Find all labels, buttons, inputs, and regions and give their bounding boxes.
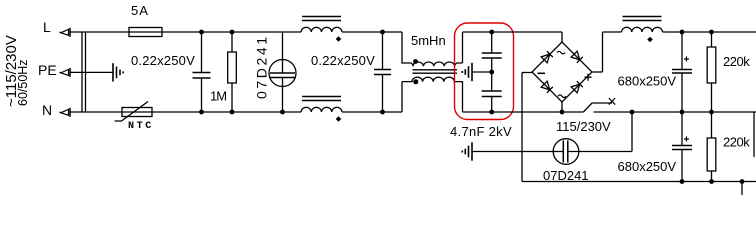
varistor RV1 leads xyxy=(282,32,284,112)
junction dot R2 mid xyxy=(709,110,714,115)
choke L2 bottom phase dot xyxy=(413,79,418,84)
choke L3 winding xyxy=(622,27,663,32)
wire choke L2 top right riser xyxy=(462,32,464,63)
choke L3 core xyxy=(623,17,662,21)
capacitor C5 polarity plus xyxy=(684,57,689,62)
wire varistor RV2 line left xyxy=(472,151,564,153)
thermistor NTC body xyxy=(122,108,152,117)
node mains source label ~115/230V 60/50Hz xyxy=(3,35,30,107)
choke L1 bottom winding xyxy=(301,107,342,112)
svg-text:60/50Hz: 60/50Hz xyxy=(16,59,30,106)
bridge rectifier diamond xyxy=(532,42,592,102)
wire bottom negative rail xyxy=(522,181,756,183)
junction dot C1 bottom xyxy=(199,110,204,115)
wire bridge AC bottom riser xyxy=(561,102,563,112)
svg-text:07D241: 07D241 xyxy=(543,168,589,183)
svg-text:680x250V: 680x250V xyxy=(618,74,677,89)
junction dot RV1 bottom xyxy=(280,110,285,115)
thermistor NTC slash xyxy=(115,102,149,122)
svg-text:0.22x250V: 0.22x250V xyxy=(311,53,375,68)
resistor R1 body xyxy=(228,52,237,83)
choke L1 top phase dot xyxy=(336,36,342,42)
resistor R3 body xyxy=(707,138,716,171)
junction dot R2 top xyxy=(709,30,714,35)
capacitor C2 leads xyxy=(382,32,384,112)
node PE terminal connector arrow xyxy=(60,68,71,77)
switch SW1 pole lever xyxy=(584,103,613,112)
wire choke L2 bottom right riser xyxy=(462,81,464,112)
varistor RV2 circle xyxy=(553,139,579,165)
capacitor C3 lead top xyxy=(491,32,493,53)
svg-text:680x250V: 680x250V xyxy=(618,159,677,174)
capacitor C1 leads xyxy=(201,32,203,112)
junction dot R1 top xyxy=(230,30,235,35)
fuse F1 body xyxy=(129,28,162,37)
choke L1 bottom core xyxy=(302,97,341,101)
capacitor C2 plates xyxy=(374,70,391,75)
choke L2 bottom jog wire xyxy=(401,82,403,112)
junction dot C4 bottom xyxy=(489,110,494,115)
wire right edge stub xyxy=(753,112,755,157)
svg-text:N: N xyxy=(42,102,52,118)
wire top rail to edge xyxy=(663,31,756,33)
diode D4 bottom-right xyxy=(571,81,583,93)
wire bridge plus stub xyxy=(592,71,603,73)
choke L2 bottom winding xyxy=(402,77,463,81)
junction dot C5 mid xyxy=(680,110,685,115)
wire bridge plus riser xyxy=(602,32,604,72)
junction dot C1 top xyxy=(199,30,204,35)
wire output stub down xyxy=(741,182,743,196)
svg-text:0.22x250V: 0.22x250V xyxy=(131,53,195,68)
ground Y-cap earth symbol xyxy=(462,63,472,81)
resistor R2 body xyxy=(707,47,716,83)
capacitor C5 lead bottom xyxy=(681,73,683,112)
wire L top rail left section xyxy=(70,31,301,33)
junction dot R3 bottom xyxy=(709,179,714,184)
svg-text:220k: 220k xyxy=(723,54,750,69)
bridge AC mark top xyxy=(557,51,565,54)
svg-text:220k: 220k xyxy=(723,135,750,150)
varistor RV1 plates xyxy=(270,73,295,78)
wire N bottom rail left section xyxy=(70,111,301,113)
diode D1 top-left xyxy=(541,51,553,63)
junction dot switch right xyxy=(630,110,635,115)
wire bottom rail inside oval xyxy=(463,111,584,113)
svg-text:115/230V: 115/230V xyxy=(556,119,611,134)
bridge minus mark xyxy=(538,72,546,74)
choke L2 core xyxy=(413,70,458,73)
capacitor C4 plates xyxy=(482,91,502,97)
wire bottom rail between chokes xyxy=(342,111,402,113)
red highlight oval around Y-capacitors xyxy=(455,23,514,120)
varistor RV2 plates xyxy=(563,141,568,163)
wire mid rail right section xyxy=(594,111,756,113)
resistor R3 leads xyxy=(711,112,713,182)
resistor R2 leads xyxy=(711,32,713,112)
resistor R1 leads xyxy=(231,32,233,112)
wire selector drop xyxy=(631,112,633,152)
capacitor C6 plates xyxy=(672,146,692,150)
svg-text:PE: PE xyxy=(38,62,57,78)
capacitor C5 plates xyxy=(672,70,692,74)
svg-text:NTC: NTC xyxy=(128,121,154,132)
wire top rail inside oval xyxy=(463,31,563,33)
junction dot Y-cap mid xyxy=(489,70,494,75)
capacitor C6 polarity plus xyxy=(684,137,689,142)
ground PE earth symbol xyxy=(113,63,123,81)
svg-text:L: L xyxy=(43,19,51,35)
choke L2 top winding xyxy=(411,62,463,66)
node N terminal connector arrow xyxy=(60,108,71,117)
junction dot output stub xyxy=(740,179,745,184)
capacitor C3 to mid node xyxy=(491,58,493,91)
varistor RV1 circle xyxy=(269,60,296,87)
choke L1 bottom phase dot xyxy=(336,116,342,122)
wire connector double vertical lines xyxy=(82,32,86,112)
choke L1 top winding xyxy=(301,27,342,32)
junction dot C2 bottom xyxy=(380,110,385,115)
wire varistor RV2 line right xyxy=(568,151,632,153)
capacitor C5 lead top xyxy=(681,32,683,70)
wire PE to ground xyxy=(70,71,113,73)
bridge AC mark bottom xyxy=(558,95,566,98)
choke L1 top core xyxy=(302,17,341,21)
diode D2 top-right xyxy=(571,51,583,63)
junction dot C3 top xyxy=(489,30,494,35)
capacitor C6 lead top xyxy=(681,112,683,146)
switch SW1 open contact x xyxy=(609,98,615,105)
svg-text:4.7nF 2kV: 4.7nF 2kV xyxy=(450,124,512,139)
choke L2 top phase dot xyxy=(413,59,418,64)
wire bridge AC top riser xyxy=(561,32,563,42)
ground earth symbol below 4.7nF label xyxy=(462,142,472,160)
capacitor C3 plates xyxy=(482,53,502,58)
choke L3 phase dot xyxy=(647,37,653,43)
wire top rail right section xyxy=(603,31,622,33)
svg-text:5mHn: 5mHn xyxy=(411,33,446,48)
diode D3 bottom-left xyxy=(541,81,553,93)
choke L2 top jog wire xyxy=(402,32,411,63)
wire mid node to ground xyxy=(472,71,492,73)
capacitor C4 lead bottom xyxy=(491,97,493,113)
svg-text:1M: 1M xyxy=(210,89,226,104)
wire top rail between chokes xyxy=(342,31,402,33)
junction dot bridge bottom xyxy=(560,110,565,115)
svg-text:5A: 5A xyxy=(131,3,149,18)
svg-text:07D241: 07D241 xyxy=(254,34,270,99)
junction dot C5 top xyxy=(680,30,685,35)
junction dot C2 top xyxy=(380,30,385,35)
capacitor C1 plates xyxy=(193,73,211,79)
junction dot R1 bottom xyxy=(230,110,235,115)
wire bridge minus drop xyxy=(521,73,523,182)
capacitor C6 lead bottom xyxy=(681,150,683,182)
junction dot C6 bottom xyxy=(680,179,685,184)
wire bridge minus stub xyxy=(522,72,532,74)
bridge plus mark xyxy=(585,74,592,81)
node L terminal connector arrow xyxy=(60,28,71,37)
